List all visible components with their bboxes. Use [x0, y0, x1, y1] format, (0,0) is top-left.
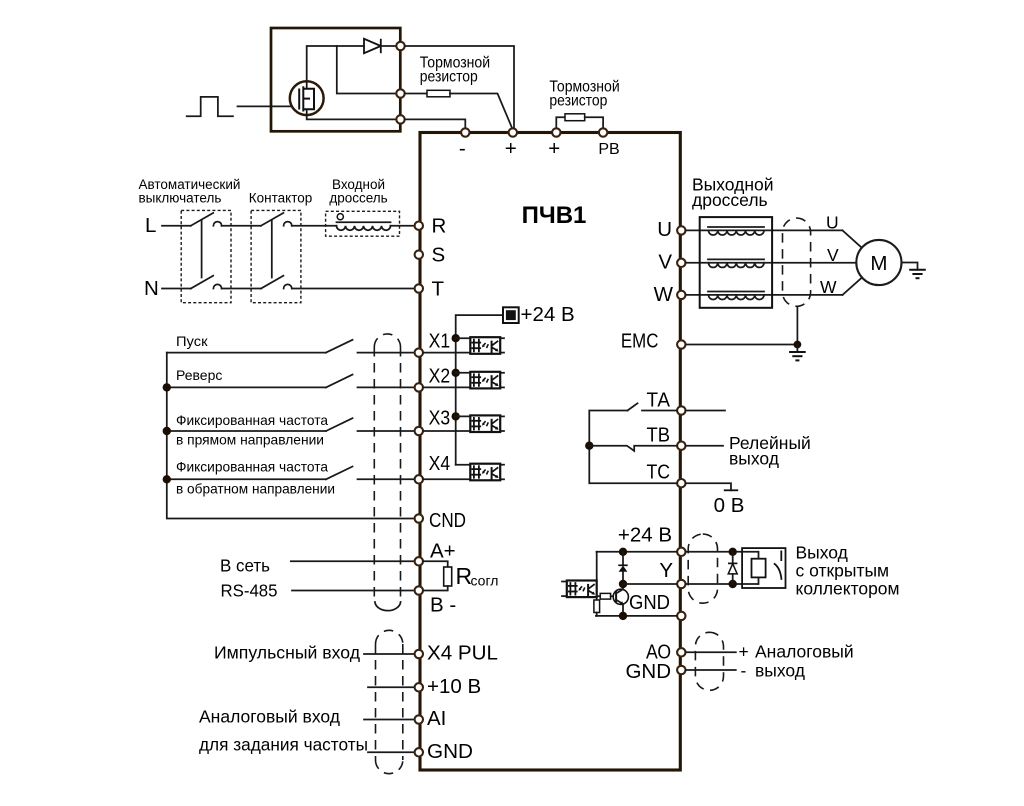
terminal plus 1 [509, 128, 517, 136]
cable screen motor [783, 218, 811, 306]
wire TA fixed [642, 410, 677, 412]
wire X1 to terminal [358, 352, 415, 354]
wire R2 to PB terminal [585, 117, 603, 128]
svg-text:X4 PUL: X4 PUL [427, 642, 498, 665]
optocoupler Y [567, 581, 597, 598]
wire opto X2 pins [423, 373, 504, 388]
terminal PB [599, 128, 607, 136]
wire common bus left [167, 353, 415, 519]
label +24 В top [521, 303, 575, 326]
label V cable [827, 245, 839, 265]
wire B- row [292, 590, 415, 592]
svg-text:RS-485: RS-485 [221, 581, 278, 601]
svg-text:ПЧВ1: ПЧВ1 [522, 202, 587, 229]
wire breaker to contactor L [222, 225, 261, 227]
wire drain to diode line [307, 46, 363, 82]
label U inner [657, 218, 672, 241]
transistor VT (MOSFET) [290, 81, 324, 115]
wire X3 to terminal [358, 430, 415, 432]
svg-text:выключатель: выключатель [139, 191, 222, 206]
optocoupler X4 [470, 464, 500, 481]
junction +24 X1 [452, 334, 460, 342]
svg-text:Фиксированная частота: Фиксированная частота [176, 459, 328, 475]
wire contactor to choke [292, 225, 337, 227]
wire opto X3 pins [423, 416, 504, 431]
svg-text:GND: GND [427, 740, 473, 763]
label GND open collector [629, 591, 670, 614]
terminal AI [415, 715, 423, 723]
svg-text:+24 В: +24 В [618, 524, 672, 547]
wire TB right stub [686, 445, 724, 447]
label B- [430, 594, 456, 617]
terminal T [415, 284, 423, 292]
input choke winding [337, 226, 391, 231]
wire choke to R [391, 225, 415, 227]
label Выходной дроссель [692, 175, 774, 210]
svg-text:резистор: резистор [420, 69, 478, 86]
wire GND ao row [686, 669, 736, 671]
label Тормозной резистор 2 [549, 78, 619, 109]
svg-text:Аналоговый: Аналоговый [755, 642, 854, 662]
wire GND rail inner [596, 615, 677, 617]
breaker switch L [191, 213, 222, 226]
wire TC right to 0V [686, 483, 732, 490]
terminal GND oc [677, 612, 685, 620]
wire L in [162, 225, 191, 227]
svg-text:EMC: EMC [621, 331, 659, 353]
svg-text:S: S [432, 244, 446, 267]
junction ext diode top [729, 548, 737, 556]
switch X4 [326, 467, 353, 480]
wire X1 row [167, 352, 326, 354]
svg-text:R: R [432, 215, 447, 238]
wire X4 to terminal [358, 478, 415, 480]
label X4 [429, 452, 451, 475]
terminal AO [677, 648, 685, 656]
junction +24 X3 [452, 412, 460, 420]
output choke winding U [708, 227, 764, 235]
junction +24 X2 [452, 369, 460, 377]
terminal chopper middle [396, 89, 404, 97]
svg-text:0 В: 0 В [714, 494, 745, 517]
label Rsogl [456, 563, 499, 589]
wire R1 to plus terminal diagonal [450, 94, 512, 129]
junction GND rail [619, 612, 627, 620]
breaker switch N [191, 276, 222, 289]
label Фиксированная частота 1 [176, 412, 328, 448]
terminal GND analog [415, 748, 423, 756]
wire +24 to opto [596, 552, 598, 581]
wire GND row [368, 751, 415, 753]
wire X4 PUL row [364, 653, 415, 655]
terminal +10V [415, 683, 423, 691]
output choke winding W [708, 292, 764, 300]
junction X3 bus [163, 427, 171, 435]
cable screen analog inputs [376, 630, 403, 773]
terminal +24V [677, 548, 685, 556]
wire diode cathode to terminal [381, 45, 396, 47]
terminal EMC [677, 340, 685, 348]
resistor base [597, 593, 616, 599]
breaker link [201, 220, 203, 278]
label Контактор [249, 191, 312, 206]
svg-text:U: U [826, 213, 839, 233]
wire U diagonal to motor [843, 230, 863, 248]
svg-text:W: W [654, 283, 674, 306]
diode VD [364, 39, 381, 53]
wire EMC row [686, 344, 798, 346]
svg-text:V: V [827, 245, 839, 265]
label PB [598, 141, 619, 158]
label Автоматический выключатель [139, 177, 241, 206]
svg-text:AI: AI [427, 707, 446, 730]
wire motor to ground [902, 263, 918, 270]
label 0 В [714, 494, 745, 517]
svg-text:Контактор: Контактор [249, 191, 312, 206]
wire opto out to base resistor node [596, 595, 598, 600]
svg-text:N: N [144, 277, 159, 300]
label S [432, 244, 446, 267]
wire top terminal to plus [405, 46, 514, 129]
junction X4 bus [163, 475, 171, 483]
optocoupler X2 [470, 372, 500, 389]
wire external brake resistor loop [556, 117, 565, 128]
terminal R [415, 222, 423, 230]
wire +10V row [368, 686, 415, 688]
label Выход с открытым коллектором [796, 542, 900, 598]
svg-text:GND: GND [629, 591, 670, 614]
svg-text:X1: X1 [429, 330, 451, 353]
output choke box [700, 217, 772, 308]
cable screen digital inputs [374, 334, 400, 611]
label plus 2 [548, 137, 560, 160]
wire opto X4 pins [423, 465, 504, 480]
label U cable [826, 213, 839, 233]
wire AI row [364, 719, 415, 721]
junction Y rail [619, 580, 627, 588]
wire TA right stub [686, 410, 726, 412]
label X1 [429, 330, 451, 353]
svg-text:U: U [657, 218, 672, 241]
wire screen to EMC [796, 307, 798, 345]
wire AO row [686, 651, 736, 653]
label minus [459, 137, 466, 160]
wire U row [686, 229, 843, 231]
svg-text:М: М [870, 252, 887, 275]
svg-text:Реверс: Реверс [176, 367, 222, 383]
wire source to bottom terminal [307, 115, 397, 120]
svg-text:+10 В: +10 В [427, 675, 481, 698]
label N [144, 277, 159, 300]
wire X3 row [167, 430, 326, 432]
wire +24 rail outer [686, 551, 759, 553]
label TC [647, 461, 671, 484]
optocoupler X3 [470, 415, 500, 432]
svg-text:B -: B - [430, 594, 456, 617]
wire N to T [292, 288, 415, 290]
terminal CND [415, 514, 423, 522]
svg-text:в прямом направлении: в прямом направлении [176, 432, 324, 448]
label + Аналоговый [739, 642, 854, 662]
terminal A+ [415, 557, 423, 565]
svg-text:выход: выход [729, 449, 779, 469]
output choke winding V [708, 259, 764, 267]
wire Y rail inner [623, 583, 677, 585]
label Пуск [176, 333, 208, 349]
wire opto stubs left [562, 582, 567, 597]
svg-text:+: + [548, 137, 560, 160]
label +24 В relay [618, 524, 672, 547]
ground motor [909, 270, 926, 278]
svg-text:дроссель: дроссель [692, 190, 768, 210]
svg-text:GND: GND [625, 660, 671, 683]
main box ПЧВ1 [420, 133, 680, 771]
label Тормозной резистор 1 [420, 55, 490, 86]
terminal X3 [415, 427, 423, 435]
svg-text:+: + [739, 642, 749, 662]
label CND [429, 509, 466, 532]
svg-text:Импульсный вход: Импульсный вход [214, 643, 360, 663]
junction X2 bus [163, 383, 171, 391]
terminal X4 [415, 475, 423, 483]
svg-text:коллектором: коллектором [796, 578, 900, 598]
resistor Rsogl [423, 561, 452, 590]
terminal TB [677, 442, 685, 450]
terminal TA [677, 406, 685, 414]
svg-text:резистор: резистор [549, 92, 607, 109]
label X2 [429, 364, 451, 387]
junction TB bus [585, 442, 593, 450]
svg-text:РВ: РВ [598, 141, 619, 158]
switch X1 [326, 340, 353, 353]
label V inner [658, 251, 672, 274]
terminal X2 [415, 383, 423, 391]
label Входной дроссель [329, 177, 387, 206]
contactor KM dashed box [251, 210, 301, 302]
label X3 [429, 407, 451, 430]
svg-text:В сеть: В сеть [220, 556, 270, 576]
wire relay common bus [589, 411, 677, 484]
label +10 В [427, 675, 481, 698]
input choke core [337, 214, 391, 223]
svg-text:согл: согл [471, 573, 499, 589]
svg-text:-: - [741, 661, 747, 681]
wire X4 row [167, 478, 326, 480]
switch TA blade [628, 403, 638, 410]
label ПЧВ1 [522, 202, 587, 229]
brake chopper module box [271, 28, 400, 131]
resistor brake R2 [565, 114, 585, 121]
junction EMC ground [794, 341, 802, 349]
terminal plus 2 [552, 128, 560, 136]
terminal minus [461, 128, 469, 136]
label TB [647, 424, 671, 447]
terminal chopper top [396, 42, 404, 50]
junction ext diode bottom [729, 580, 737, 588]
svg-text:Аналоговый вход: Аналоговый вход [199, 707, 340, 727]
wire A+ row [291, 560, 415, 562]
svg-text:Выход: Выход [796, 542, 848, 562]
svg-text:с открытым: с открытым [796, 560, 890, 580]
wire W row [686, 294, 843, 296]
svg-text:выход: выход [755, 661, 805, 681]
relay load box [742, 548, 785, 588]
wire gate input [238, 105, 298, 107]
terminal X1 [415, 348, 423, 356]
label A+ [430, 540, 456, 563]
svg-text:+: + [505, 137, 517, 160]
terminal chopper bottom [396, 115, 404, 123]
label Фиксированная частота 2 [176, 459, 335, 497]
resistor brake R1 [427, 90, 450, 97]
wire +24V vertical feed [456, 315, 503, 465]
svg-text:L: L [145, 214, 156, 237]
label R [432, 215, 447, 238]
label plus 1 [505, 137, 517, 160]
label Релейный выход [729, 433, 811, 469]
label AI [427, 707, 446, 730]
input choke dashed box [326, 211, 400, 236]
label AO [646, 641, 671, 664]
svg-text:ТВ: ТВ [647, 424, 671, 447]
diode VD1 internal [618, 552, 627, 584]
svg-text:дроссель: дроссель [329, 191, 387, 206]
terminal U [677, 226, 685, 234]
wire X2 row [167, 386, 326, 388]
wire V row [686, 262, 857, 264]
wire tap to middle terminal [337, 46, 396, 94]
wire +24 rail inner [597, 551, 678, 553]
terminal B- [415, 586, 423, 594]
ground EMC [789, 345, 806, 361]
label GND ao [625, 660, 671, 683]
motor M [856, 240, 901, 285]
0V symbol [724, 489, 738, 491]
label В сеть [220, 556, 270, 576]
label GND analog [427, 740, 473, 763]
label W cable [820, 277, 837, 297]
svg-text:T: T [432, 278, 445, 301]
wire X2 to terminal [358, 386, 415, 388]
diode VD2 external [728, 552, 737, 584]
wire W diagonal to motor [843, 278, 863, 295]
wire middle terminal to brake resistor R1 [405, 93, 427, 95]
terminal Y [677, 580, 685, 588]
label X4 PUL [427, 642, 498, 665]
contactor switch L [261, 213, 292, 226]
cable screen AO [695, 632, 723, 690]
svg-text:-: - [459, 137, 466, 160]
svg-text:V: V [658, 251, 672, 274]
breaker QF dashed box [181, 210, 231, 302]
svg-text:ТА: ТА [647, 389, 671, 412]
switch X3 [326, 418, 353, 431]
switch TB contact [589, 446, 677, 451]
terminal TC [677, 479, 685, 487]
terminal S [415, 250, 423, 258]
wire N in [162, 288, 191, 290]
transistor VT2 [613, 584, 628, 616]
contactor switch N [261, 276, 292, 289]
resistor pulldown [594, 600, 600, 616]
label W inner [654, 283, 674, 306]
svg-text:Y: Y [659, 559, 673, 582]
label Аналоговый вход [199, 707, 340, 727]
wire breaker to contactor N [222, 288, 261, 290]
+24V square symbol [503, 307, 519, 323]
svg-text:+24 В: +24 В [521, 303, 575, 326]
label L [145, 214, 156, 237]
wire opto X1 pins [423, 338, 504, 352]
svg-text:X3: X3 [429, 407, 451, 430]
label Y [659, 559, 673, 582]
svg-text:ТС: ТС [647, 461, 671, 484]
svg-text:Пуск: Пуск [176, 333, 208, 349]
terminal X4 PUL [415, 650, 423, 658]
contactor link [271, 220, 273, 278]
svg-text:CND: CND [429, 509, 466, 532]
label T [432, 278, 445, 301]
svg-text:X2: X2 [429, 364, 451, 387]
label EMC [621, 331, 659, 353]
optocoupler X1 [470, 337, 500, 354]
label Импульсный вход [214, 643, 360, 663]
svg-text:A+: A+ [430, 540, 456, 563]
svg-text:для задания частоты: для задания частоты [199, 735, 368, 755]
switch X2 [326, 375, 353, 388]
pulse signal symbol [187, 97, 233, 116]
label TA [647, 389, 671, 412]
wire Y rail outer [686, 583, 759, 585]
terminal GND ao [677, 666, 685, 674]
terminal V [677, 259, 685, 267]
wire bottom terminal to minus [405, 119, 466, 128]
junction diode top [619, 548, 627, 556]
cable screen Y [688, 534, 717, 603]
svg-text:X4: X4 [429, 452, 451, 475]
label для задания частоты [199, 735, 368, 755]
svg-text:W: W [820, 277, 837, 297]
terminal W [677, 291, 685, 299]
svg-text:Фиксированная частота: Фиксированная частота [176, 412, 328, 428]
label RS-485 [221, 581, 278, 601]
label - выход [741, 661, 806, 681]
label Реверс [176, 367, 222, 383]
svg-text:в обратном направлении: в обратном направлении [176, 481, 335, 497]
